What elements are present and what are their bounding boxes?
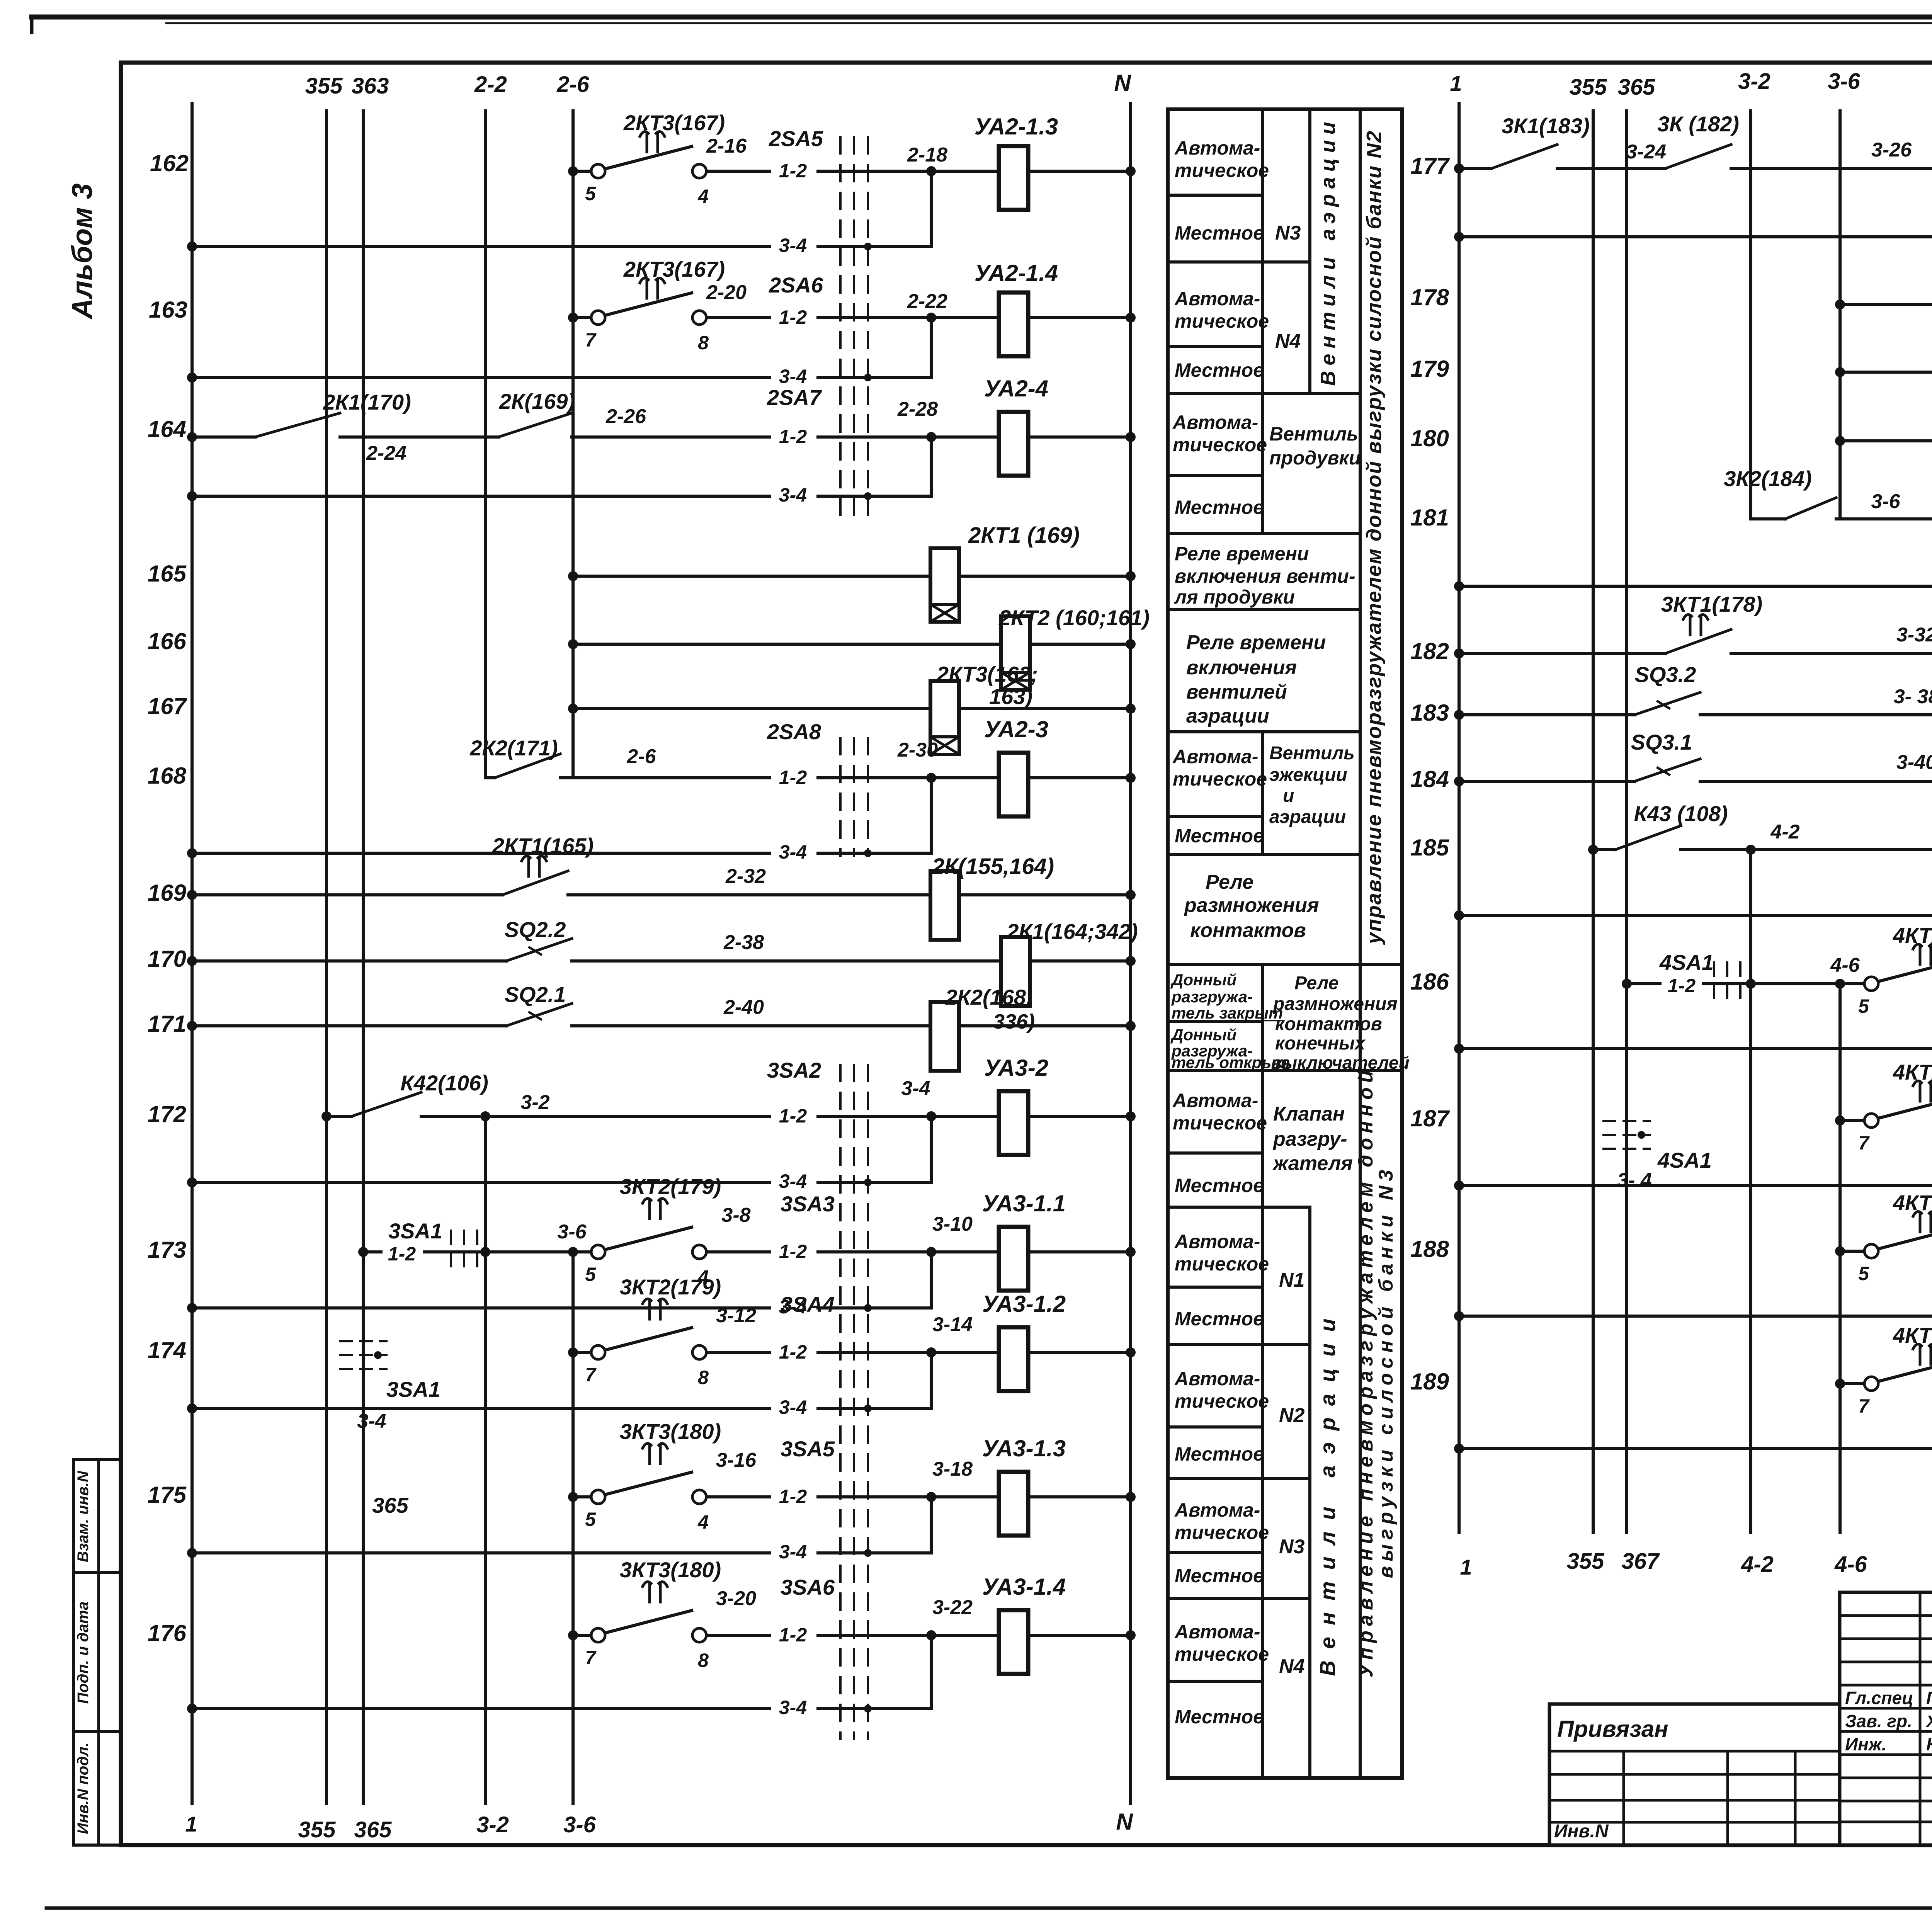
sheet outer top border xyxy=(32,15,1932,20)
svg-text:К43 (108): К43 (108) xyxy=(1634,801,1728,826)
wire to coil xyxy=(568,893,930,896)
time contact 3КТ3(180) xyxy=(605,1611,692,1633)
bus 3-2 (lower segment) xyxy=(484,1116,487,1804)
wire return 3-4 xyxy=(192,1707,931,1710)
wire rung row 183 xyxy=(1459,713,1634,716)
svg-text:3-2: 3-2 xyxy=(1738,69,1770,94)
svg-text:2-2: 2-2 xyxy=(474,72,507,97)
svg-text:1-2: 1-2 xyxy=(1668,975,1696,997)
svg-text:3КТ3(180): 3КТ3(180) xyxy=(620,1558,721,1582)
svg-text:N1: N1 xyxy=(1279,1269,1304,1291)
wire rung (УА4-1.2) xyxy=(1840,1119,1864,1122)
svg-text:2SA5: 2SA5 xyxy=(769,126,823,151)
svg-text:УА3-1.3: УА3-1.3 xyxy=(982,1435,1066,1461)
svg-text:4КТ3(193): 4КТ3(193) xyxy=(1893,1190,1932,1215)
svg-text:171: 171 xyxy=(148,1011,186,1037)
svg-text:2КТ3(167): 2КТ3(167) xyxy=(623,257,725,281)
svg-text:2К1(164;342): 2К1(164;342) xyxy=(1006,919,1138,944)
svg-text:Автома-: Автома- xyxy=(1172,412,1258,433)
svg-text:тическое: тическое xyxy=(1175,1390,1269,1412)
svg-text:162: 162 xyxy=(150,150,189,176)
svg-text:3-6: 3-6 xyxy=(563,1812,596,1837)
svg-text:182: 182 xyxy=(1410,638,1449,664)
svg-text:2К2(171): 2К2(171) xyxy=(469,736,558,760)
coil УА3-2 xyxy=(931,1115,999,1118)
svg-text:Местное: Местное xyxy=(1175,1308,1264,1330)
node 3-2 row 172 xyxy=(421,1115,931,1118)
contact 2К2(171) xyxy=(495,754,560,778)
svg-text:2-16: 2-16 xyxy=(706,135,747,157)
svg-text:тическое: тическое xyxy=(1175,310,1269,332)
svg-text:продувки: продувки xyxy=(1269,447,1361,469)
svg-text:N4: N4 xyxy=(1279,1655,1305,1678)
contact 2К1(170) xyxy=(255,413,340,437)
svg-text:7: 7 xyxy=(585,1364,597,1386)
svg-text:Местное: Местное xyxy=(1175,1706,1264,1728)
svg-text:3-24: 3-24 xyxy=(1626,141,1666,163)
wire rung row 184 xyxy=(1459,780,1634,783)
coil УА2-1.3 xyxy=(931,170,999,173)
svg-text:контактов: контактов xyxy=(1275,1014,1382,1034)
wire coil to N xyxy=(1028,1115,1131,1118)
svg-text:УА3-1.1: УА3-1.1 xyxy=(982,1190,1066,1216)
svg-text:186: 186 xyxy=(1410,969,1449,995)
svg-text:Вентиль: Вентиль xyxy=(1269,743,1355,764)
attachment table Привязан xyxy=(1549,1704,1840,1845)
svg-text:166: 166 xyxy=(148,628,187,654)
contact К43(108) xyxy=(1615,826,1681,850)
svg-text:разгру-: разгру- xyxy=(1272,1128,1347,1150)
wire rung (УА2-1.3) xyxy=(573,170,591,173)
wire rung row 167 xyxy=(573,707,930,710)
svg-text:тическое: тическое xyxy=(1175,1643,1269,1665)
svg-text:Автома-: Автома- xyxy=(1174,1499,1260,1521)
wire rung row 164 xyxy=(192,435,255,439)
wire rung row 168 xyxy=(485,776,495,779)
svg-text:Подп. и дата: Подп. и дата xyxy=(75,1602,92,1704)
wire rung row 180 xyxy=(1840,439,1932,442)
svg-text:5: 5 xyxy=(585,1264,596,1285)
svg-text:3SA1: 3SA1 xyxy=(388,1219,442,1243)
time contact 3КТ3(180) xyxy=(605,1472,692,1495)
svg-text:2-40: 2-40 xyxy=(723,996,764,1019)
svg-text:Местное: Местное xyxy=(1175,1175,1264,1196)
svg-text:3- 4: 3- 4 xyxy=(1617,1169,1652,1192)
svg-text:Хрипушкина: Хрипушкина xyxy=(1925,1712,1932,1731)
svg-text:164: 164 xyxy=(148,416,186,442)
svg-text:тическое: тическое xyxy=(1173,768,1267,790)
svg-text:УА3-1.4: УА3-1.4 xyxy=(982,1574,1066,1600)
wire return 3-4 row 177 xyxy=(1459,235,1932,238)
contact 3К1(183) xyxy=(1492,145,1557,168)
wire coil to N xyxy=(1028,1351,1131,1354)
wire to coil 182 xyxy=(1731,652,1932,655)
svg-text:3-2: 3-2 xyxy=(520,1091,549,1114)
svg-text:7: 7 xyxy=(585,1647,597,1668)
node 3-22 xyxy=(926,1630,936,1640)
node 3-14 xyxy=(926,1347,936,1357)
wire return 3-4 xyxy=(1459,1315,1932,1318)
wire return 3-4 row 181 xyxy=(1459,585,1932,588)
coil УА2-4 xyxy=(931,435,999,439)
svg-text:тель закрыт: тель закрыт xyxy=(1172,1004,1283,1022)
svg-text:5: 5 xyxy=(1858,1263,1869,1284)
svg-text:3-6: 3-6 xyxy=(1871,490,1900,513)
svg-text:1-2: 1-2 xyxy=(779,1241,807,1262)
wire rung row 182 xyxy=(1459,652,1665,655)
svg-text:вентилей: вентилей xyxy=(1186,681,1287,703)
contact circle pin 7 xyxy=(591,311,605,325)
contact circle pin 5 xyxy=(1864,977,1878,991)
svg-text:включения венти-: включения венти- xyxy=(1175,565,1355,587)
svg-text:3-16: 3-16 xyxy=(716,1449,757,1471)
svg-text:180: 180 xyxy=(1410,425,1449,451)
svg-text:2-6: 2-6 xyxy=(556,72,590,97)
svg-text:SQ2.2: SQ2.2 xyxy=(505,917,566,942)
limit switch contact SQ3.1 xyxy=(1634,759,1700,781)
svg-text:185: 185 xyxy=(1410,835,1450,861)
svg-text:разгружа-: разгружа- xyxy=(1171,988,1253,1006)
wire coil to N xyxy=(959,893,1131,896)
contact circle pin 5 xyxy=(591,1245,605,1259)
wire to harness row 164 xyxy=(572,435,931,439)
svg-text:8: 8 xyxy=(698,1367,709,1388)
svg-text:выключателей: выключателей xyxy=(1271,1053,1410,1073)
wire return 3-4 xyxy=(192,1306,931,1310)
wire rung row 171 xyxy=(192,1024,506,1027)
svg-text:355: 355 xyxy=(1567,1549,1605,1574)
svg-text:Вентили аэрации: Вентили аэрации xyxy=(1316,116,1340,386)
svg-text:Потехин: Потехин xyxy=(1926,1688,1932,1708)
svg-text:3-18: 3-18 xyxy=(932,1458,973,1480)
svg-text:Местное: Местное xyxy=(1175,359,1264,381)
svg-text:1-2: 1-2 xyxy=(779,767,807,788)
svg-text:4КТ3(193): 4КТ3(193) xyxy=(1893,1323,1932,1347)
svg-text:УА2-1.3: УА2-1.3 xyxy=(975,114,1058,139)
wire to coil 184 xyxy=(1700,780,1932,783)
time contact 4КТ3(193) xyxy=(1878,1226,1932,1249)
wire rung (УА3-1.3) xyxy=(573,1495,591,1498)
limit switch contact SQ2.1 xyxy=(506,1003,572,1026)
wire return 3-4 row 168 xyxy=(192,852,931,855)
svg-text:4SA1: 4SA1 xyxy=(1657,1148,1712,1172)
wire to harness xyxy=(706,1250,931,1253)
svg-text:управление пневморазгружателем: управление пневморазгружателем донной вы… xyxy=(1362,130,1386,945)
wire rung (УА4-1.4) xyxy=(1840,1382,1864,1385)
wire return 3-4 xyxy=(192,245,931,248)
wire rung (УА2-1.4) xyxy=(573,316,591,319)
svg-text:7: 7 xyxy=(1858,1395,1870,1417)
wire coil to N xyxy=(1030,959,1131,963)
svg-text:УА2-4: УА2-4 xyxy=(984,376,1048,401)
svg-text:181: 181 xyxy=(1410,505,1449,531)
svg-text:173: 173 xyxy=(148,1237,186,1263)
svg-text:1-2: 1-2 xyxy=(779,1624,807,1646)
svg-text:УА2-3: УА2-3 xyxy=(984,716,1048,742)
svg-text:Донный: Донный xyxy=(1170,971,1236,989)
svg-text:SQ2.1: SQ2.1 xyxy=(505,982,566,1007)
svg-text:8: 8 xyxy=(698,332,709,354)
svg-text:контактов: контактов xyxy=(1190,919,1306,942)
wire 3-2 to 3-6 jog xyxy=(485,1250,573,1253)
node 2-28 xyxy=(926,432,936,442)
bus 3-6 right (upper segment) xyxy=(1838,111,1842,519)
svg-text:355: 355 xyxy=(305,73,343,99)
node 2-30 xyxy=(926,773,936,783)
svg-text:3К1(183): 3К1(183) xyxy=(1502,114,1589,138)
svg-text:3-6: 3-6 xyxy=(1828,69,1861,94)
bus 2-6 (upper segment) xyxy=(571,111,575,778)
svg-text:Автома-: Автома- xyxy=(1174,288,1260,310)
wire coil to N xyxy=(1028,1250,1131,1253)
time contact 2КТ1(165) xyxy=(502,871,568,895)
svg-text:2SA6: 2SA6 xyxy=(769,273,823,297)
svg-text:N: N xyxy=(1114,70,1131,96)
wire return 3-4 xyxy=(1459,1047,1932,1050)
svg-text:187: 187 xyxy=(1410,1105,1450,1131)
time contact 4КТ2(192) xyxy=(1878,1096,1932,1118)
left margin stamp box Взам.инв.№ xyxy=(73,1459,121,1573)
svg-text:Гл.спец: Гл.спец xyxy=(1845,1688,1913,1708)
svg-text:3-4: 3-4 xyxy=(779,1697,807,1718)
svg-text:177: 177 xyxy=(1410,153,1450,179)
wire rung row 179 xyxy=(1840,371,1932,374)
svg-text:4SA1: 4SA1 xyxy=(1659,950,1714,975)
svg-text:363: 363 xyxy=(352,73,389,99)
svg-text:3-14: 3-14 xyxy=(932,1313,973,1336)
wire coil to N xyxy=(1028,170,1131,173)
contact circle pin 4 xyxy=(692,1490,706,1504)
svg-text:Зав. гр.: Зав. гр. xyxy=(1845,1711,1912,1731)
wire coil to N xyxy=(1028,1634,1131,1637)
svg-text:3КТ2(179): 3КТ2(179) xyxy=(620,1174,721,1199)
svg-text:Вентиль: Вентиль xyxy=(1269,423,1358,445)
relay coil 2К2(168;336) xyxy=(930,1002,959,1071)
svg-text:3-2: 3-2 xyxy=(476,1812,509,1837)
bus 3-2 right (upper segment) xyxy=(1749,111,1752,519)
node 2-18 xyxy=(926,166,936,176)
title block signature grid xyxy=(1840,1592,1932,1845)
wire rung row 170 xyxy=(192,959,506,963)
wire rung row 169 xyxy=(192,893,502,896)
contact circle pin 4 xyxy=(692,164,706,178)
svg-text:163): 163) xyxy=(989,684,1032,709)
svg-text:и: и xyxy=(1283,786,1294,806)
wire rung row 181 xyxy=(1836,517,1932,520)
svg-text:Альбом 3: Альбом 3 xyxy=(66,184,98,320)
node 3-4 row 172 xyxy=(926,1111,936,1121)
bus 365/367 (right half) xyxy=(1625,111,1628,1532)
wire rung row 185 xyxy=(1593,848,1615,851)
coil УА3-1.3 xyxy=(931,1495,999,1498)
svg-text:2К1(170): 2К1(170) xyxy=(323,390,411,414)
svg-text:Автома-: Автома- xyxy=(1174,1368,1260,1389)
contact circle pin 8 xyxy=(692,1628,706,1642)
svg-text:2-30: 2-30 xyxy=(897,739,938,761)
node 4-2 row 185 xyxy=(1681,848,1932,851)
svg-text:3КТ1(178): 3КТ1(178) xyxy=(1661,592,1762,616)
svg-text:3К2(184): 3К2(184) xyxy=(1724,466,1811,491)
middle table grid xyxy=(1168,194,1263,197)
left margin stamp box Инв.№подл. xyxy=(73,1731,121,1845)
svg-text:тическое: тическое xyxy=(1175,1253,1269,1275)
svg-text:тическое: тическое xyxy=(1173,1112,1267,1134)
svg-text:Управление пневморазгружателем: Управление пневморазгружателем донной xyxy=(1355,1066,1377,1678)
time contact 2КТ3(167) xyxy=(605,146,692,169)
svg-text:Автома-: Автома- xyxy=(1172,1090,1258,1111)
svg-text:тическое: тическое xyxy=(1175,160,1269,181)
svg-text:N2: N2 xyxy=(1279,1404,1305,1427)
svg-text:конечных: конечных xyxy=(1275,1033,1366,1054)
bus N (left half) xyxy=(1129,104,1132,1804)
wire rung row 172 xyxy=(327,1115,352,1118)
wire coil to N xyxy=(959,1024,1131,1027)
wire coil to N xyxy=(959,575,1131,578)
cable bundle rows 162-164 xyxy=(839,137,842,526)
svg-text:367: 367 xyxy=(1622,1549,1660,1574)
svg-text:аэрации: аэрации xyxy=(1186,705,1269,727)
node 3-18 xyxy=(926,1492,936,1502)
wire xyxy=(340,435,498,439)
wire return 3-4 xyxy=(192,1407,931,1410)
svg-text:2-18: 2-18 xyxy=(907,144,947,166)
svg-text:Автома-: Автома- xyxy=(1174,137,1260,159)
svg-text:N: N xyxy=(1116,1809,1133,1835)
svg-text:Местное: Местное xyxy=(1175,497,1264,518)
contact 3К2(184) xyxy=(1751,517,1785,520)
svg-text:Автома-: Автома- xyxy=(1174,1621,1260,1643)
svg-text:4КТ2(192): 4КТ2(192) xyxy=(1893,923,1932,947)
svg-text:Донный: Донный xyxy=(1170,1026,1236,1044)
svg-text:184: 184 xyxy=(1410,766,1449,792)
svg-text:3SA1: 3SA1 xyxy=(386,1377,440,1401)
contact 3SA1 pins 1-2 xyxy=(363,1250,485,1253)
svg-text:3-4: 3-4 xyxy=(901,1077,930,1100)
svg-text:3-4: 3-4 xyxy=(779,1170,807,1192)
svg-text:176: 176 xyxy=(148,1620,187,1646)
svg-text:1-2: 1-2 xyxy=(388,1243,416,1265)
wire return 3-4 xyxy=(1459,1184,1932,1187)
svg-text:1: 1 xyxy=(1460,1555,1472,1579)
svg-text:3- 38: 3- 38 xyxy=(1894,685,1932,708)
svg-text:2-26: 2-26 xyxy=(605,405,646,428)
bus 3-6 (lower segment) xyxy=(571,1252,575,1804)
contact circle pin 5 xyxy=(591,164,605,178)
contact 4SA1 pins 1-2 xyxy=(1627,982,1751,985)
wire rung (УА3-1.2) xyxy=(573,1351,591,1354)
coil УА2-1.4 xyxy=(931,316,999,319)
relay coil 2К1(164;342) xyxy=(1001,937,1030,1006)
svg-text:2-22: 2-22 xyxy=(907,290,947,313)
svg-text:2-24: 2-24 xyxy=(366,442,406,464)
svg-text:172: 172 xyxy=(148,1101,186,1127)
wire rung row 178 xyxy=(1840,303,1932,306)
svg-text:165: 165 xyxy=(148,561,187,587)
wire rung (УА4-1.3) xyxy=(1840,1250,1864,1253)
wire 4-2 to 4-6 jog xyxy=(1751,982,1840,985)
wire coil to N xyxy=(1028,1495,1131,1498)
svg-text:SQ3.2: SQ3.2 xyxy=(1635,662,1696,687)
svg-text:336): 336) xyxy=(993,1010,1035,1033)
wire return 3-4 row 164 xyxy=(192,495,931,498)
svg-text:2К(155,164): 2К(155,164) xyxy=(932,854,1054,879)
contact circle pin 8 xyxy=(692,1345,706,1359)
svg-text:Инж.: Инж. xyxy=(1845,1734,1887,1754)
time contact 4КТ2(192) xyxy=(1878,959,1932,981)
svg-text:1-2: 1-2 xyxy=(779,306,807,328)
wire to harness xyxy=(706,1495,931,1498)
svg-text:УА3-1.2: УА3-1.2 xyxy=(982,1291,1066,1317)
svg-text:ля продувки: ля продувки xyxy=(1174,586,1295,608)
wire return 3-4 xyxy=(192,1551,931,1554)
svg-text:УА2-1.4: УА2-1.4 xyxy=(975,260,1058,286)
svg-text:Реле: Реле xyxy=(1294,973,1339,993)
svg-text:3-6: 3-6 xyxy=(557,1221,587,1243)
svg-text:3-12: 3-12 xyxy=(716,1304,756,1327)
svg-text:4: 4 xyxy=(697,185,709,207)
wire to coil xyxy=(572,1024,930,1027)
svg-text:2SA8: 2SA8 xyxy=(767,719,821,744)
svg-text:2-28: 2-28 xyxy=(897,398,938,420)
wire to harness xyxy=(706,1351,931,1354)
left margin stamp box Подп. и дата xyxy=(73,1573,121,1731)
svg-text:Автома-: Автома- xyxy=(1172,746,1258,767)
node 2-22 xyxy=(926,313,936,323)
svg-text:Местное: Местное xyxy=(1175,222,1264,244)
svg-text:2КТ3(167): 2КТ3(167) xyxy=(623,111,725,135)
svg-text:168: 168 xyxy=(148,763,187,789)
svg-text:тическое: тическое xyxy=(1173,434,1267,456)
limit switch contact SQ2.2 xyxy=(506,939,572,961)
svg-text:4: 4 xyxy=(697,1511,709,1533)
svg-text:3-4: 3-4 xyxy=(779,1541,807,1563)
svg-text:3К (182): 3К (182) xyxy=(1657,112,1739,136)
svg-text:Инв.N: Инв.N xyxy=(1554,1821,1609,1842)
svg-text:размножения: размножения xyxy=(1184,894,1319,917)
svg-text:179: 179 xyxy=(1410,356,1449,382)
wire rung row 166 xyxy=(573,643,1001,646)
wire rung row 177 xyxy=(1459,167,1492,170)
svg-text:1-2: 1-2 xyxy=(779,1486,807,1507)
svg-text:2SA7: 2SA7 xyxy=(767,385,822,410)
bus 355 (right half) xyxy=(1592,111,1595,1532)
svg-text:3-4: 3-4 xyxy=(779,366,807,387)
svg-text:178: 178 xyxy=(1410,284,1449,310)
coil УА3-1.1 xyxy=(931,1250,999,1253)
svg-text:2-38: 2-38 xyxy=(723,931,764,954)
svg-text:размножения: размножения xyxy=(1272,994,1398,1014)
svg-text:7: 7 xyxy=(585,329,597,351)
svg-text:3-4: 3-4 xyxy=(779,235,807,256)
svg-text:К42(106): К42(106) xyxy=(400,1071,488,1095)
svg-text:Инв.N подл.: Инв.N подл. xyxy=(75,1742,92,1834)
coil УА2-3 xyxy=(931,776,999,779)
sheet outer bottom border xyxy=(46,1906,1932,1910)
svg-text:Реле времени: Реле времени xyxy=(1175,543,1309,565)
svg-text:2К2(168;: 2К2(168; xyxy=(945,985,1033,1009)
cable bundle row 168 xyxy=(839,738,842,856)
svg-text:5: 5 xyxy=(1858,995,1869,1017)
svg-text:7: 7 xyxy=(1858,1132,1870,1154)
svg-text:1: 1 xyxy=(1450,71,1462,95)
contact 3К(182) xyxy=(1665,145,1731,168)
svg-text:N4: N4 xyxy=(1275,330,1301,352)
svg-text:жателя: жателя xyxy=(1272,1152,1353,1175)
svg-text:189: 189 xyxy=(1410,1369,1449,1395)
wire return 3-4 row 185 xyxy=(1459,914,1932,917)
svg-text:183: 183 xyxy=(1410,700,1449,726)
svg-text:2КТ2 (160;161): 2КТ2 (160;161) xyxy=(998,605,1150,630)
